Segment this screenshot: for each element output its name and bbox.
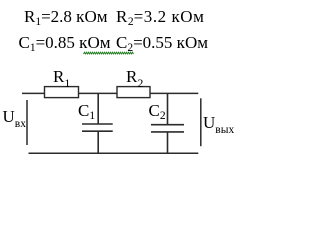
value label R1=2.8 кОм [24,8,107,26]
wire C1 bottom lead [97,131,99,153]
value label R2=3.2 кОм [116,8,204,26]
node label U_вх (input voltage) [3,108,26,126]
resistor label R1 [53,68,70,85]
wire R2 to output [150,92,198,94]
wire C2 bottom lead [167,132,169,153]
node B: junction drop to C2 [167,93,169,125]
grammar-check squiggle under "кОм С2" [84,52,134,54]
capacitor label C2 [149,102,166,120]
resistor R2 [117,87,150,98]
value label C2=0.55 кОм [116,34,208,52]
wire R1 to R2 [79,92,118,94]
resistor R1 [45,87,79,98]
value label C1=0.85 кОм [19,34,111,52]
capacitor label C1 [78,102,95,120]
wire input top lead [22,92,45,94]
capacitor C2 [151,125,184,132]
wire bottom rail [29,152,199,154]
resistor label R2 [126,68,143,85]
output port bracket [200,98,202,146]
input port bracket [26,100,28,145]
capacitor C1 [82,124,113,131]
node A: junction drop to C1 [97,93,99,124]
node label U_вых (output voltage) [203,114,234,132]
